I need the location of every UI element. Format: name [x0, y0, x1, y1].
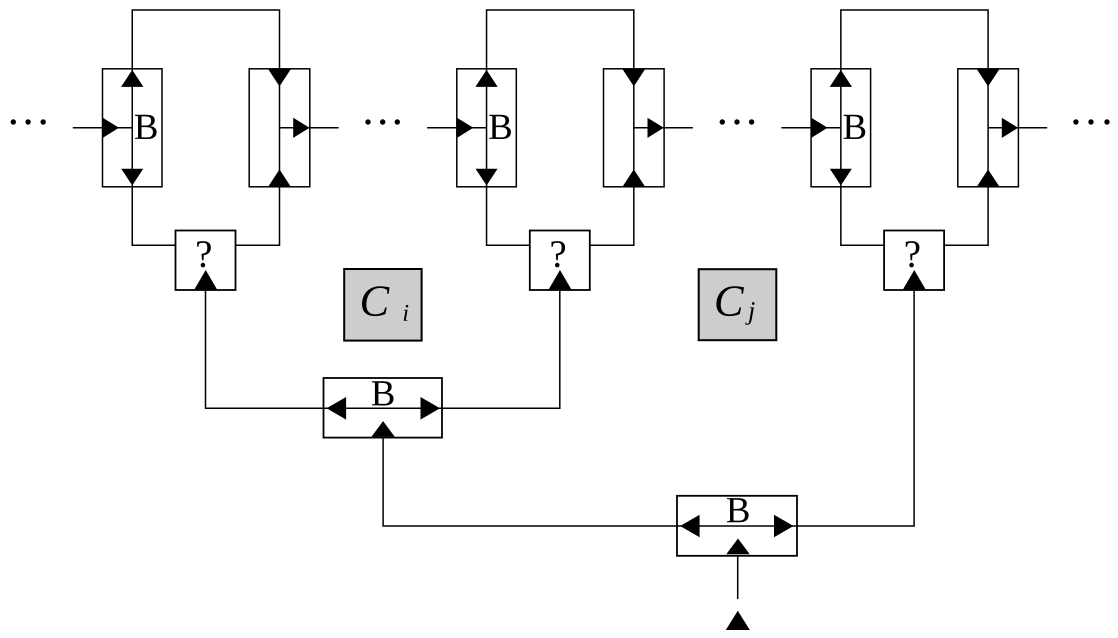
arrowhead up, top of B2a [475, 70, 497, 87]
arrowhead up, bottom of B2b [623, 169, 646, 186]
arrowhead down, top of B2b [623, 69, 646, 86]
buffer B2b (right tall box, unit 2) [604, 69, 665, 187]
wire: top loop and vertical rails of unit 1 [132, 10, 279, 245]
arrowhead up, bottom input of ?3 [903, 270, 926, 289]
arrowhead right, B4 right output [421, 397, 441, 420]
arrowhead right, input of B3a [811, 118, 827, 138]
label ? of ?1 [197, 241, 211, 267]
wire: horizontal line through B5 [677, 525, 797, 527]
cell C_i (gray box) [344, 269, 421, 341]
comparator ?3 box [884, 231, 944, 291]
arrowhead left, B4 left output [327, 397, 347, 420]
label B of B5 [727, 498, 749, 522]
arrowhead down, top of B1b [268, 69, 291, 86]
wire: B5 bottom input stub [737, 556, 739, 599]
wire: top loop and vertical rails of unit 2 [487, 10, 634, 245]
arrowhead right, input of B2a [457, 118, 473, 138]
arrowhead right, input of B1a [103, 118, 119, 138]
label C_j [716, 286, 754, 325]
comparator ?2 box [530, 231, 590, 291]
arrowhead up, bottom input of ?1 [194, 270, 217, 289]
wire: output of B1b [280, 127, 339, 129]
arrowhead up, bottom of B1b [268, 169, 291, 186]
label B of B2a [489, 115, 511, 139]
label B of B1a [135, 115, 157, 139]
wire: ?3 output down to merge B5 right input [797, 290, 914, 526]
arrowhead right, output of B3b [1002, 118, 1018, 138]
label ? of ?2 [551, 241, 565, 267]
wire: input into B2a [427, 127, 486, 129]
label B of B4 [372, 381, 394, 405]
wire: ?1 output down to merge B4 left input [206, 290, 324, 408]
arrowhead right, output of B2b [648, 118, 664, 138]
wire: input into B3a [781, 127, 840, 129]
buffer B5 (bottom merge box) [677, 496, 797, 556]
buffer B2a (left tall box, unit 2) [457, 69, 517, 187]
dots: ellipsis between unit 2 and 3 [720, 119, 755, 124]
arrowhead right, output of B1b [293, 118, 309, 138]
arrowhead down, bottom of B3a [830, 169, 852, 186]
wire: top loop and vertical rails of unit 3 [841, 10, 988, 245]
buffer B3a (left tall box, unit 3) [811, 69, 871, 187]
label B of B3a [844, 115, 866, 139]
buffer B1a (left tall box, unit 1) [103, 69, 163, 187]
arrowhead up, B4 bottom input [371, 421, 395, 437]
arrowhead down, bottom of B2a [476, 169, 498, 186]
arrowhead up, top of B3a [830, 70, 852, 87]
wire: output of B3b [988, 127, 1047, 129]
buffer B4 (middle merge box) [324, 378, 443, 438]
arrowhead right, B5 right output [774, 515, 794, 538]
wire: input into B1a [73, 127, 132, 129]
arrowhead up, bottom input of ?2 [549, 270, 572, 289]
arrowhead down, bottom of B1a [121, 169, 143, 186]
arrowhead up, B5 bottom input [726, 539, 750, 555]
arrowhead left, B5 left output [680, 515, 700, 538]
arrowhead up, top of B1a [121, 70, 143, 87]
wire: horizontal line through B4 [324, 407, 443, 409]
label C_i [362, 286, 408, 321]
dots: ellipsis between unit 1 and 2 [365, 119, 400, 124]
wire: B4 bottom down to B5 left input [383, 438, 677, 526]
wire: output of B2b [634, 127, 693, 129]
buffer B1b (right tall box, unit 1) [249, 69, 310, 187]
buffer B3b (right tall box, unit 3) [958, 69, 1019, 187]
dots: ellipsis right edge [1073, 119, 1110, 124]
dots: ellipsis left edge [11, 119, 46, 124]
arrowhead down, top of B3b [977, 69, 1000, 86]
wire: ?2 output down to merge B4 right input [442, 290, 560, 408]
label ? of ?3 [906, 241, 920, 267]
arrowhead up, bottom of B3b [977, 169, 1000, 186]
arrowhead up, external input below B5 [726, 611, 750, 630]
comparator ?1 box [176, 231, 236, 291]
cell C_j (gray box) [699, 269, 777, 340]
